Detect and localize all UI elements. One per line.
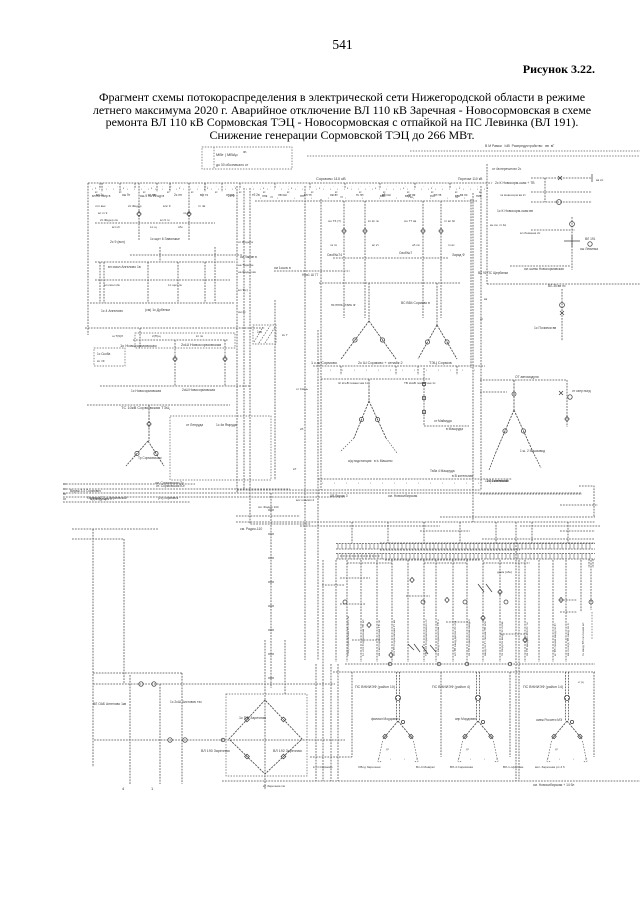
stub row 585 (322, 584, 345, 586)
row 684 (93, 683, 335, 685)
transformer T2 (418, 325, 457, 359)
box top row 563b (424, 562, 467, 564)
svg-text:ВЛ-4 Саровская: ВЛ-4 Саровская (450, 765, 473, 769)
svg-text:Своб№74: Своб№74 (327, 253, 342, 257)
row 494 right part (480, 493, 582, 495)
tripod TR2 stem left rail (476, 672, 478, 721)
generator feeder x500 (499, 560, 501, 662)
svg-text:ι: ι (466, 481, 467, 485)
svg-text:.: . (153, 184, 154, 188)
svg-text:ι: ι (442, 187, 443, 191)
svg-text:вТ: вТ (293, 467, 297, 471)
breaker x570 (568, 395, 572, 399)
svg-text:ι: ι (316, 187, 317, 191)
band ladder A ticks (338, 544, 590, 550)
breaker row740 a (168, 738, 172, 742)
svg-text:2сШ Новосормовская: 2сШ Новосормовская (181, 342, 221, 347)
transformer T3 winding L (359, 417, 363, 421)
tripod TR1 ring (401, 720, 404, 723)
dashed box edge x592 (591, 612, 593, 640)
terminal tick (591, 174, 593, 182)
svg-text:.: . (216, 184, 217, 188)
band corner rail b (592, 559, 594, 568)
svg-text:2б: 2б (300, 427, 304, 431)
gen breaker x591 (589, 600, 593, 604)
svg-text:вч Т: вч Т (282, 333, 288, 337)
svg-text:вл смол 2в: вл смол 2в (104, 283, 120, 287)
generator feeder x553 (552, 560, 554, 662)
vertical x323 (322, 560, 324, 781)
stub row 600 (560, 599, 577, 601)
svg-text:ВЛ 192 Заречная: ВЛ 192 Заречная (273, 749, 302, 753)
svg-text:ι: ι (450, 368, 451, 372)
transformer T1 winding L (353, 338, 357, 342)
svg-text:ι: ι (442, 481, 443, 485)
bus row 479 (318, 478, 512, 480)
svg-text:.: . (99, 184, 100, 188)
band seg 531 (420, 530, 470, 532)
svg-text:вт лк: вт лк (196, 334, 204, 338)
switch x567 (565, 416, 569, 421)
right row 192 (531, 191, 592, 193)
svg-text:ПС ВНИИЭФ (район 14): ПС ВНИИЭФ (район 14) (523, 685, 563, 689)
row 502 (63, 501, 190, 503)
generator band bus b (336, 548, 595, 550)
wire through ring vertical (264, 700, 266, 790)
generator feeder x347 (346, 560, 348, 662)
svg-text:св ТВ ввод вл отп 2с тн: св ТВ ввод вл отп 2с тн (525, 622, 529, 656)
svg-text:тк вс: тк вс (448, 243, 455, 247)
tripod TR2 stem right rail (478, 672, 480, 721)
svg-text:ι: ι (470, 187, 471, 191)
svg-text:ι: ι (342, 368, 343, 372)
svg-text:вт: вт (239, 191, 242, 194)
tripod TR3 legs (552, 721, 582, 739)
bus stub x100 (99, 183, 101, 188)
svg-text:.: . (387, 184, 388, 188)
band line 517 (440, 516, 595, 518)
bus row 328 (85, 327, 265, 329)
band seg 526a (300, 525, 440, 527)
T4 tails (489, 452, 541, 470)
svg-text:2с: 2с (480, 317, 484, 321)
svg-text:.: . (441, 184, 442, 188)
band seg 556 (340, 555, 380, 557)
drop from row 380 (566, 380, 568, 427)
bus row 379 (321, 378, 430, 380)
band seg 526b (520, 525, 600, 527)
svg-text:лв сш: лв сш (278, 193, 287, 197)
bus vertical B-left (320, 199, 322, 490)
tripod TR3 stem left rail (565, 672, 567, 721)
svg-text:вл смол Ангелово 1в: вл смол Ангелово 1в (108, 265, 141, 269)
tie row 3 (319, 282, 460, 284)
svg-text:.: . (162, 184, 163, 188)
svg-text:2с Ш Сормово + отпайк 2: 2с Ш Сормово + отпайк 2 (358, 361, 403, 365)
svg-text:.: . (288, 184, 289, 188)
feeder wire x344 (343, 201, 345, 318)
cross tap Levinka (564, 235, 580, 247)
svg-text:от Ленруда: от Ленруда (186, 423, 203, 427)
svg-text:.: . (234, 184, 235, 188)
svg-text:ιι: ιι (375, 187, 377, 190)
tripod TR3 breaker (564, 695, 569, 700)
ring breaker NE (281, 717, 286, 722)
svg-text:ι: ι (155, 187, 156, 191)
transformer T4 winding L (503, 429, 507, 433)
corner right low (579, 486, 594, 517)
legend top line (410, 150, 640, 152)
tick on x271 (268, 509, 274, 511)
svg-text:ι: ι (302, 187, 303, 191)
svg-text:Тр Сормовского: Тр Сормовского (138, 456, 162, 460)
svg-text:вот клалвп 4: вот клалвп 4 (296, 498, 314, 502)
svg-text:Поречье 110 кВ: Поречье 110 кВ (458, 177, 483, 181)
cluster dash row y578 (340, 577, 370, 579)
row 484 (63, 483, 195, 485)
svg-text:.: . (342, 184, 343, 188)
svg-text:см. Новосибирская + 14 бл: см. Новосибирская + 14 бл (533, 783, 574, 787)
stub from top bus x170 (169, 183, 171, 192)
svg-text:ι: ι (573, 757, 574, 761)
svg-text:ι: ι (211, 187, 212, 191)
band corner rail a (588, 559, 590, 568)
right block left edge (486, 164, 488, 284)
transformer T4 stem (513, 380, 515, 410)
svg-text:сбк: сбк (178, 225, 183, 229)
svg-text:2с К Новосорм-ская + ТВ: 2с К Новосорм-ская + ТВ (495, 181, 535, 185)
left row 223 (95, 222, 215, 224)
breaker row684 b (152, 682, 156, 686)
svg-text:см 1сшзч в: см 1сшзч в (274, 266, 291, 270)
breaker row684 a (139, 682, 143, 686)
band line 522 (236, 521, 595, 523)
switch on x423 (421, 228, 425, 233)
band seg 516 left (236, 515, 300, 517)
svg-text:1с Новосормовская: 1с Новосормовская (131, 389, 161, 393)
svg-text:Заряд Ф: Заряд Ф (452, 253, 465, 257)
svg-text:вкл. Заречная рп 4 б: вкл. Заречная рп 4 б (535, 765, 565, 769)
row 529 (72, 528, 158, 530)
row 539 (72, 538, 124, 540)
bottom bus 781 (222, 780, 640, 782)
vertical bus x271 (270, 493, 272, 688)
generator feeder x525 (524, 560, 526, 662)
switch gen x525 (523, 637, 527, 642)
svg-text:ι: ι (246, 187, 247, 191)
tie row 2 (274, 270, 350, 272)
svg-text:1с 2сШ Чистович тэс: 1с 2сШ Чистович тэс (170, 700, 202, 704)
svg-text:ВЛ-35 вв лч: ВЛ-35 вв лч (548, 284, 566, 288)
svg-text:ι: ι (478, 481, 479, 485)
svg-text:в Ь Машино: в Ь Машино (374, 459, 393, 463)
switch gen x483 (481, 615, 485, 620)
tripod TR2 legs (463, 721, 493, 739)
bus vertical A-left outer (236, 186, 238, 493)
generator feeder x566 (565, 560, 567, 662)
svg-text:.: . (486, 184, 487, 188)
svg-text:Нов1 Ш 77: Нов1 Ш 77 (302, 273, 318, 277)
svg-text:ι: ι (141, 187, 142, 191)
junction 664d (508, 662, 512, 666)
svg-text:ι: ι (334, 481, 335, 485)
svg-text:ι: ι (463, 187, 464, 191)
svg-text:ι: ι (318, 368, 319, 372)
svg-text:сш 9т: сш 9т (122, 193, 131, 197)
svg-text:ι: ι (281, 187, 282, 191)
svg-text:ι: ι (148, 187, 149, 191)
switch gen x561 (559, 597, 563, 602)
svg-text:ВЛ 91 ПС Щербинки: ВЛ 91 ПС Щербинки (478, 271, 508, 275)
svg-text:1с щ: 1с щ (150, 225, 157, 229)
bus stub x380 (379, 183, 381, 188)
band ladder B ticks (338, 554, 590, 560)
svg-text:.: . (477, 184, 478, 188)
gen breaker x345 (343, 600, 347, 604)
svg-text:см 2с: см 2с (238, 310, 246, 314)
bus left block top (130, 254, 242, 256)
transformer T3 winding R (375, 417, 379, 421)
svg-text:1 с.ш Сормово: 1 с.ш Сормово (311, 361, 337, 365)
svg-text:в Машруда: в Машруда (446, 427, 463, 431)
svg-text:(см) 1с Дубенки: (см) 1с Дубенки (145, 308, 170, 312)
bus stub x275 (274, 183, 276, 188)
svg-text:вв скв Сормовская ТВ лс: вв скв Сормовская ТВ лс (377, 619, 381, 656)
svg-text:вн сш лт 4в: вн сш лт 4в (490, 223, 506, 227)
svg-text:ι: ι (435, 187, 436, 191)
svg-text:см. шины Новосормовская: см. шины Новосормовская (524, 267, 564, 271)
band stub x496 (495, 522, 497, 543)
top-right border line (307, 155, 640, 157)
svg-text:.: . (333, 184, 334, 188)
svg-text:тб 2в: тб 2в (252, 193, 260, 197)
vertical bus x473 (472, 193, 474, 522)
branch row 426 (424, 425, 469, 427)
svg-text:ι: ι (394, 481, 395, 485)
stub from top bus x222 (221, 183, 223, 192)
svg-text:ı: ı (345, 197, 346, 200)
svg-text:ВЛ-1 офисная: ВЛ-1 офисная (503, 765, 524, 769)
svg-text:вт: вт (191, 191, 194, 194)
switch open line178 (558, 176, 562, 180)
svg-text:1с 4в Ямруда: 1с 4в Ямруда (216, 423, 237, 427)
switch gen x412 (410, 577, 414, 582)
svg-text:на Тарифе: на Тарифе (238, 263, 254, 267)
drop wire Pochinki (561, 289, 563, 341)
junction left vertex (221, 738, 225, 742)
svg-text:.: . (378, 184, 379, 188)
svg-text:ТВ-104 Сормовская вл от: ТВ-104 Сормовская вл от (424, 619, 428, 656)
generator feeder x361 (360, 560, 362, 662)
svg-text:.: . (225, 184, 226, 188)
bus vertical B-right (470, 199, 472, 368)
bus stub x345 (344, 183, 346, 188)
svg-text:1с 4 Ангелово: 1с 4 Ангелово (101, 309, 123, 313)
svg-text:лк Новосорм вв 2т: лк Новосорм вв 2т (500, 193, 526, 197)
svg-text:вт 2с лк: вт 2с лк (368, 219, 379, 223)
band stub x532 (531, 522, 533, 543)
band line 539 (482, 538, 595, 540)
svg-text:ВЛ 190 Заречная: ВЛ 190 Заречная (201, 749, 230, 753)
generator feeder x408 (407, 560, 409, 662)
svg-text:ι: ι (382, 481, 383, 485)
svg-text:ιι: ιι (95, 187, 97, 190)
small box Skoba (94, 348, 125, 366)
ring breaker NW (245, 717, 250, 722)
svg-text:ι: ι (454, 481, 455, 485)
svg-text:ι: ι (390, 368, 391, 372)
svg-text:ι: ι (176, 187, 177, 191)
bus vertical A-left middle (243, 188, 245, 490)
right row 230 (531, 229, 575, 231)
tripod TR3 ring (570, 720, 573, 723)
svg-text:ι: ι (438, 368, 439, 372)
tick on x271 (268, 653, 274, 655)
svg-text:вс 2т: вс 2т (372, 243, 380, 247)
transformer T2 winding R (445, 340, 449, 344)
svg-text:в/д индукция 9: в/д индукция 9 (90, 497, 112, 501)
svg-text:от Фидера: от Фидера (238, 240, 253, 244)
svg-text:ι: ι (354, 368, 355, 372)
switch gen x447 (445, 597, 449, 602)
svg-text:ι: ι (414, 368, 415, 372)
svg-text:.: . (207, 184, 208, 188)
svg-text:.: . (117, 184, 118, 188)
svg-text:.: . (144, 184, 145, 188)
svg-text:2сШ Новосормовская: 2сШ Новосормовская (182, 388, 215, 392)
reactor 1 (423, 383, 426, 386)
svg-text:ввод св 2т линия ТВ влн: ввод св 2т линия ТВ влн (483, 621, 487, 656)
tripod TR1 winding L (383, 734, 388, 739)
svg-text:нб лв: нб лв (412, 243, 420, 247)
svg-text:ι: ι (559, 757, 560, 761)
band stub x460 (459, 522, 461, 543)
tripod TR1 tails (379, 741, 417, 758)
svg-text:ı: ı (362, 197, 363, 200)
bus through ring horizontal (94, 739, 345, 741)
box top row 563c (483, 562, 530, 564)
svg-text:от Связь: от Связь (296, 387, 309, 391)
svg-text:св ТВ Сормовская ввод л: св ТВ Сормовская ввод л (467, 619, 471, 656)
left block stub x178 (177, 262, 179, 303)
svg-text:.: . (315, 184, 316, 188)
tripod TR3 winding L (552, 734, 557, 739)
svg-text:пс ппль сталь зг: пс ппль сталь зг (331, 303, 357, 307)
svg-text:.: . (171, 184, 172, 188)
svg-text:лс вт: лс вт (183, 211, 191, 215)
junction 664a (437, 662, 441, 666)
breaker T4 stem (512, 392, 516, 396)
transformer T5 winding R (154, 451, 158, 455)
bus row 340 (133, 339, 228, 341)
svg-text:сж вт: сж вт (330, 193, 338, 197)
hatch in box 1so (254, 326, 275, 343)
svg-text:.: . (297, 184, 298, 188)
svg-text:ιι: ιι (291, 187, 293, 190)
svg-text:тн ввод ТВ св линия вл: тн ввод ТВ св линия вл (581, 623, 585, 656)
bus row 405 (87, 404, 230, 406)
tail x457 (456, 366, 458, 375)
svg-text:ιι: ιι (347, 187, 349, 190)
vertical x338 (337, 664, 339, 781)
bus stub x310 (309, 183, 311, 188)
junction 664b (465, 662, 469, 666)
tick on x271 (268, 629, 274, 631)
svg-text:1с Скоба: 1с Скоба (97, 352, 111, 356)
gen breaker x506 (504, 600, 508, 604)
svg-text:ι: ι (462, 368, 463, 372)
generator feeder x377 (376, 560, 378, 662)
svg-text:на Фидер вв: на Фидер вв (238, 270, 256, 274)
svg-text:ι: ι (365, 187, 366, 191)
svg-text:вт: вт (167, 191, 170, 194)
svg-text:апр Мордовэн: апр Мордовэн (455, 717, 476, 721)
svg-text:Своб№7: Своб№7 (399, 251, 412, 255)
svg-text:зн.: зн. (243, 150, 247, 154)
svg-text:.: . (135, 184, 136, 188)
svg-text:ι: ι (253, 187, 254, 191)
generator feeder x392 (391, 560, 393, 662)
cluster dash row y622 (446, 621, 470, 623)
row 489 (63, 488, 290, 490)
svg-text:а/д подстанция: а/д подстанция (348, 459, 372, 463)
left block stub x148 (147, 262, 149, 303)
svg-text:тп вв: тп вв (148, 193, 156, 197)
svg-text:лк тв: лк тв (330, 243, 337, 247)
tick on x271 (268, 677, 274, 679)
switch on x441 (439, 228, 443, 233)
tripod TR1 stem right rail (398, 672, 400, 721)
band stub x568 (567, 522, 569, 543)
band stub x424 (423, 522, 425, 543)
svg-text:ι: ι (346, 481, 347, 485)
bus vertical A-left inner with elbow (250, 188, 310, 524)
svg-text:ι: ι (418, 481, 419, 485)
svg-text:ι: ι (428, 187, 429, 191)
switch on x365 (363, 228, 367, 233)
generator feeder x336 (335, 560, 337, 662)
vertical x182 (181, 673, 183, 784)
ring breaker SE (281, 754, 286, 759)
switch S2 (187, 211, 191, 216)
svg-text:филиал Мордовэн: филиал Мордовэн (371, 717, 399, 721)
svg-text:ПС ВНИИЭФ (район 10): ПС ВНИИЭФ (район 10) (355, 685, 395, 689)
tripod TR3 tails (548, 741, 586, 758)
bus Sormovo 1s/2s (313, 365, 485, 367)
svg-text:ι: ι (474, 368, 475, 372)
feeder with reactors (423, 368, 425, 426)
svg-text:вл Т(с): вл Т(с) (238, 288, 248, 292)
generator feeder x424 (423, 560, 425, 662)
wire into ring top (264, 640, 266, 700)
drop wire Levinka (571, 217, 573, 270)
svg-text:вл 9 тк: вл 9 тк (160, 218, 170, 222)
tripod TR1 breaker (395, 695, 400, 700)
T3 tails (340, 438, 397, 453)
svg-text:вт: вт (215, 191, 218, 194)
switch x175 (173, 356, 177, 361)
switch on x344 (342, 228, 346, 233)
squiggle marks b (478, 584, 492, 592)
tripod hooks x398 (378, 758, 418, 762)
svg-text:ι: ι (106, 187, 107, 191)
svg-text:ТЭЦ Сормов: ТЭЦ Сормов (429, 361, 452, 365)
tick on x271 (268, 557, 274, 559)
wire left block 3 (214, 247, 216, 303)
svg-text:ι: ι (113, 187, 114, 191)
cluster dash row y604 (340, 603, 365, 605)
svg-text:ТЭЦ Сормовская ТВ-104 лн: ТЭЦ Сормовская ТВ-104 лн (346, 616, 350, 656)
